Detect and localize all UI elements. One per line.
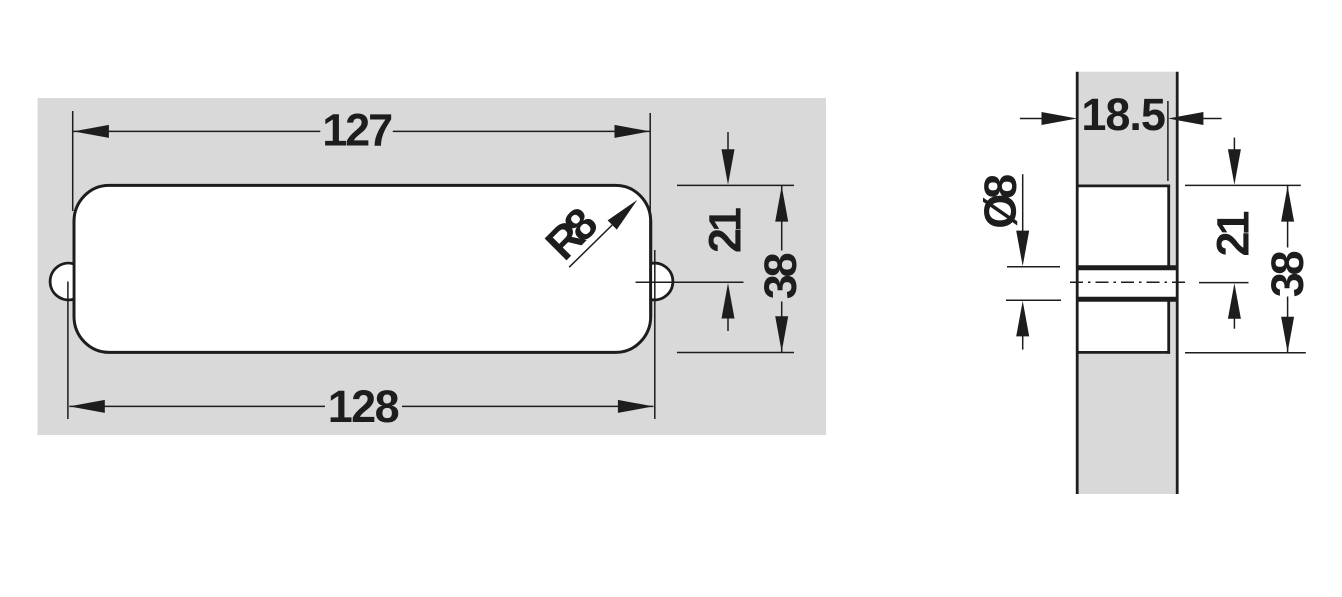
recess white area (side view): [1077, 186, 1169, 352]
dim 18.5 right arrow tail: [1201, 118, 1222, 120]
dim Ø8 upper arrow: [1022, 174, 1024, 233]
dim 38 top arrow (side view): [1281, 186, 1294, 222]
cutout right edge reinforcement: [649, 220, 652, 318]
dim 38 text (side view): [1262, 250, 1313, 297]
dim 127 line right segment: [393, 130, 650, 132]
R8 leader line: [569, 225, 612, 267]
svg-text:128: 128: [328, 381, 400, 432]
dim Ø8 lower arrow: [1016, 301, 1029, 337]
svg-text:18.5: 18.5: [1081, 89, 1166, 140]
dim 18.5 right arrow: [1168, 112, 1204, 125]
cutout (rounded rectangle recess): [74, 185, 651, 352]
hole center extension segment (right): [1199, 282, 1249, 284]
dim 127 arrow left: [73, 125, 109, 138]
dim 18.5 left arrow: [1042, 112, 1078, 125]
right drill hole bump: [650, 263, 673, 300]
recess top edge (side view): [1077, 184, 1170, 187]
dim 21 top arrow (side view): [1233, 138, 1235, 153]
left drill hole bump: [50, 263, 74, 300]
dim 38 bottom arrow (front view): [775, 316, 788, 352]
dim 21 bottom arrow (front view): [722, 283, 735, 319]
dim 38 text (front view): [755, 252, 806, 299]
svg-text:Ø8: Ø8: [975, 174, 1026, 229]
svg-text:21: 21: [700, 207, 751, 253]
dim 128 arrow right: [618, 400, 654, 413]
dim 21 bottom arrow (side view): [1228, 283, 1241, 319]
dim 128 line right segment: [402, 405, 653, 407]
panel side view (gray strip): [1079, 72, 1176, 494]
svg-text:21: 21: [1208, 211, 1259, 257]
dim 21 top arrow (front view): [727, 132, 729, 152]
recess bottom edge (side view): [1077, 351, 1170, 354]
dim 38 line lower segment (side view): [1287, 297, 1289, 353]
dim 38 line upper segment (side view): [1287, 186, 1289, 248]
panel left face line: [1076, 72, 1079, 494]
dim Ø8 upper extension line: [1007, 266, 1060, 268]
bottom extension line (38 datum, front view): [677, 352, 794, 354]
dim 38 top arrow (front view): [775, 186, 788, 222]
dim 128 line left segment: [69, 405, 325, 407]
dim 127 extension line left: [72, 111, 74, 211]
dim 38 line upper segment (front view): [781, 186, 783, 251]
dim 38 bottom arrow (side view): [1281, 317, 1294, 353]
hole slot bottom edge: [1077, 297, 1177, 302]
dim 18.5 extension line (recess inner face): [1167, 101, 1169, 181]
top extension line (21/38 datum, side view): [1185, 184, 1301, 186]
panel right face line: [1176, 72, 1179, 494]
recess inner face upper segment: [1167, 185, 1170, 268]
R8 leader arrow: [608, 200, 638, 230]
dim 127 extension line right: [649, 113, 651, 217]
dim 18.5 left arrow tail: [1020, 118, 1043, 120]
dim 21 text (side view): [1208, 211, 1259, 257]
dim Ø8 text (rotated): [975, 174, 1026, 229]
dim 127 line left segment: [73, 130, 320, 132]
cutout left edge reinforcement: [73, 220, 76, 318]
hole slot top edge: [1077, 265, 1177, 270]
R8 text (rotated 45deg): [535, 197, 607, 269]
dim 128 extension line right: [654, 250, 656, 419]
panel front view (gray board): [38, 98, 827, 435]
dim 128 arrow left: [69, 400, 105, 413]
hole center line (right hole): [636, 281, 744, 283]
dim 127 arrow right: [615, 125, 651, 138]
dim 21 text (front view): [700, 207, 751, 253]
svg-text:38: 38: [1262, 250, 1313, 297]
recess inner face lower segment: [1167, 298, 1170, 354]
bottom extension line (38 datum, side view): [1185, 352, 1306, 354]
through hole slot white area (side view): [1079, 270, 1176, 297]
svg-text:127: 127: [322, 105, 393, 156]
svg-text:38: 38: [755, 252, 806, 299]
dim Ø8 lower extension line: [1006, 299, 1061, 301]
dim 128 extension line left: [67, 282, 69, 420]
dim 38 line lower segment (front view): [781, 302, 783, 353]
hole center line (dash-dot, side view): [1070, 281, 1190, 283]
top extension line (21/38 datum, front view): [677, 184, 794, 186]
